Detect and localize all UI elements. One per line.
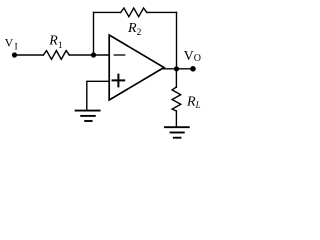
- op-amp non-inverting input plus sign: [113, 75, 125, 87]
- op-amp inverting input minus sign: [114, 54, 124, 56]
- wire feedback vertical down to output: [176, 12, 178, 68]
- op-amp U1 triangle: [109, 35, 164, 100]
- wire output junction down to RL: [175, 69, 177, 87]
- wire feedback top right segment: [147, 11, 177, 13]
- node output junction dot: [174, 66, 179, 71]
- wire non-inverting input to ground: [87, 81, 109, 109]
- wire op-amp output to VO terminal: [163, 68, 193, 70]
- node A junction dot (feedback tap): [91, 52, 96, 57]
- ground (right, below RL): [165, 127, 189, 138]
- resistor RL: [172, 87, 181, 111]
- node VO output terminal dot: [190, 66, 196, 72]
- wire feedback top left segment: [94, 11, 121, 13]
- ground (left, at + input): [76, 111, 100, 121]
- wire input to R1: [15, 54, 44, 56]
- wire feedback vertical up: [93, 12, 95, 55]
- resistor R1: [43, 51, 69, 60]
- wire R1 to op-amp inverting input: [69, 54, 109, 56]
- wire RL to ground: [175, 111, 177, 126]
- node VI input terminal dot: [12, 52, 17, 57]
- resistor R2: [121, 8, 147, 17]
